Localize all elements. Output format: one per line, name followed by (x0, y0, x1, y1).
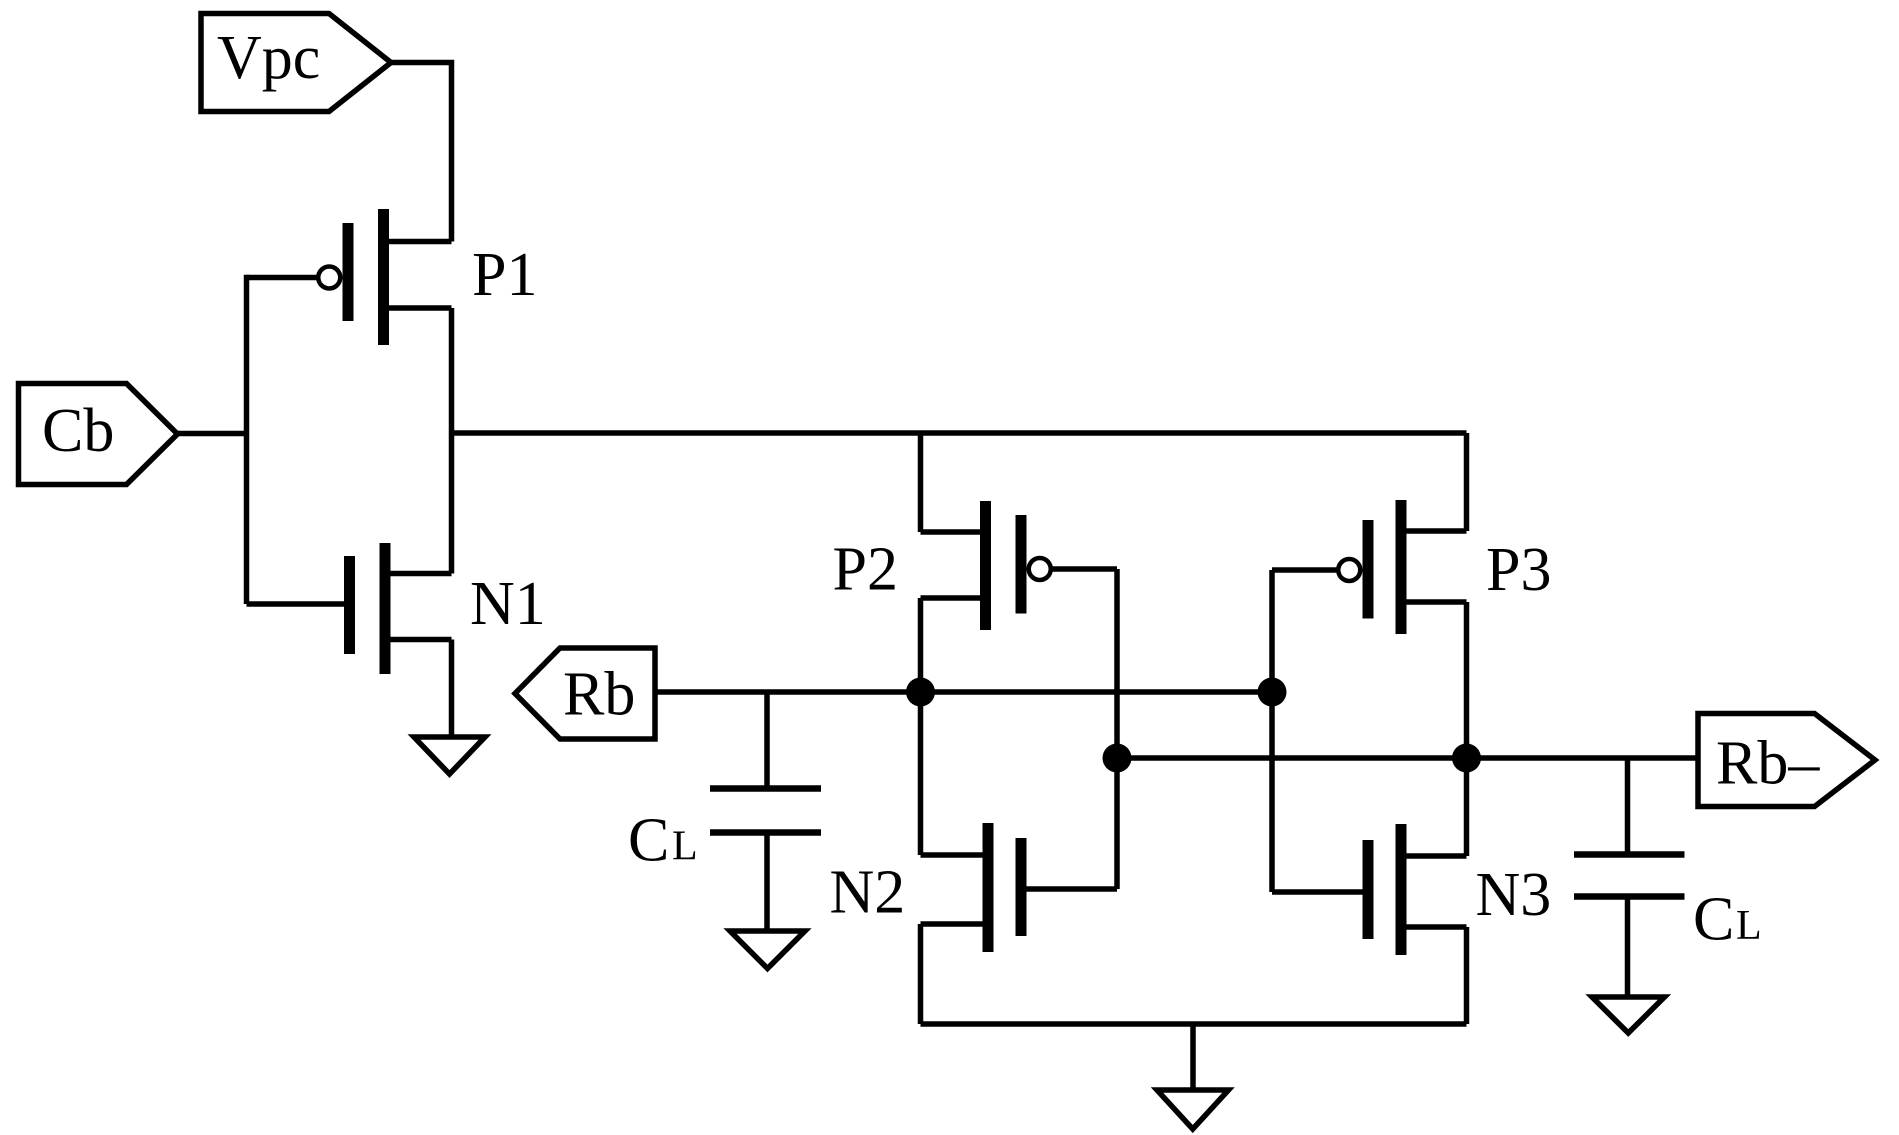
label CL1 (628, 807, 698, 875)
wire Vpc tip to P1 drain (391, 63, 452, 242)
svg-text:P2: P2 (833, 536, 898, 604)
port Vpc (201, 14, 391, 112)
svg-text:N1: N1 (470, 570, 546, 638)
svg-text:Cb: Cb (42, 397, 114, 465)
wire P2 source branch from rail (918, 433, 924, 532)
wire Rb rail (655, 689, 1272, 695)
node A junction dot (906, 678, 935, 707)
port Cb (19, 384, 178, 485)
wire N2 source to bottom rail (918, 924, 924, 1024)
transistor N1 (247, 543, 452, 674)
wire N1 source to ground (449, 640, 455, 738)
wire gate bus of P1/N1 (244, 275, 250, 604)
wire Cb to gate bus (178, 431, 247, 437)
svg-text:Rb–: Rb– (1716, 730, 1820, 798)
node C junction dot (1258, 678, 1287, 707)
svg-text:P1: P1 (472, 241, 537, 309)
svg-text:C: C (1693, 886, 1734, 954)
node D output junction dot (1452, 744, 1481, 773)
port Rb (515, 648, 655, 739)
wire P3 source branch from rail (1464, 433, 1470, 531)
wire P1 source to N1 drain (449, 308, 455, 574)
svg-text:L: L (672, 824, 698, 870)
wire N3 source to bottom rail (1464, 927, 1470, 1024)
wire node A to N2 drain (918, 692, 924, 855)
svg-text:Vpc: Vpc (217, 24, 320, 92)
svg-text:L: L (1736, 903, 1762, 949)
wire bottom rail (921, 1021, 1467, 1027)
port Rb- (1698, 714, 1875, 807)
transistor N2 (921, 823, 1118, 952)
capacitor CL2 (1574, 758, 1685, 997)
ground under N1 (414, 737, 485, 774)
wire P3/N3 gate bus (1269, 570, 1275, 892)
wire P3 drain to N3 drain (output) (1464, 602, 1470, 856)
wire P2/N2 gate bus (1114, 569, 1120, 889)
transistor N3 (1272, 824, 1467, 955)
wire output to Rb- port (1467, 755, 1699, 761)
wire main rail to right half (452, 430, 1467, 436)
svg-text:N3: N3 (1476, 861, 1552, 929)
transistor P2 (921, 501, 1118, 630)
ground under CL1 (730, 931, 805, 969)
node B junction dot (1103, 744, 1132, 773)
svg-text:Rb: Rb (563, 661, 635, 729)
svg-text:C: C (628, 807, 669, 875)
ground under CL2 (1592, 997, 1665, 1033)
svg-text:N2: N2 (830, 859, 906, 927)
wire central ground stub (1190, 1024, 1196, 1090)
transistor P1 (247, 209, 452, 345)
wire cross rail node B to output (1117, 755, 1467, 761)
wire P2 drain to node A (918, 598, 924, 692)
label CL2 (1693, 886, 1762, 954)
capacitor CL1 (710, 692, 821, 931)
ground central (1157, 1090, 1229, 1129)
transistor P3 (1272, 500, 1467, 634)
svg-text:P3: P3 (1486, 536, 1551, 604)
